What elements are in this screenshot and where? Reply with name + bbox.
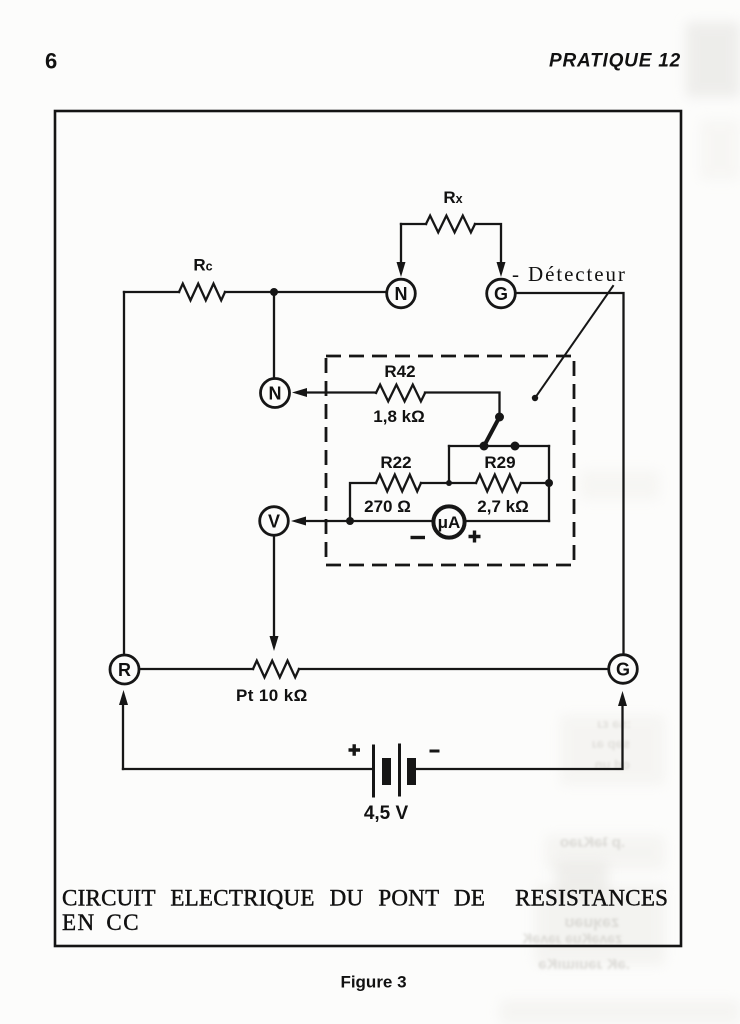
svg-text:V: V (268, 512, 280, 532)
svg-text:2,7 kΩ: 2,7 kΩ (477, 497, 528, 516)
svg-text:PRATIQUE 12: PRATIQUE 12 (549, 51, 681, 72)
svg-text::sə ɛɹ: :sə ɛɹ (597, 716, 631, 731)
svg-text:R: R (118, 660, 131, 680)
svg-text:N: N (395, 284, 408, 304)
svg-text:zəʞuəʊ: zəʞuəʊ (565, 914, 619, 931)
svg-text:Pt 10 kΩ: Pt 10 kΩ (236, 686, 308, 705)
svg-text:zəʌəƘuə ɹəʌəƘ: zəʌəƘuə ɹəʌəƘ (522, 930, 622, 946)
svg-text:.p ʇəƘɹəo: .p ʇəƘɹəo (560, 834, 625, 851)
svg-text:- Détecteur: - Détecteur (512, 262, 627, 286)
svg-text:R42: R42 (384, 362, 415, 381)
svg-text:6: 6 (45, 49, 57, 74)
svg-text:N: N (269, 384, 282, 404)
svg-text:R22: R22 (380, 453, 411, 472)
svg-text:270 Ω: 270 Ω (364, 497, 411, 516)
svg-text:1,8 kΩ: 1,8 kΩ (373, 407, 424, 426)
svg-text:səp əɹ: səp əɹ (592, 736, 630, 751)
svg-text:R29: R29 (484, 453, 515, 472)
svg-text:.əƘ ɹəuıɯıƘə: .əƘ ɹəuıɯıƘə (538, 956, 630, 973)
svg-text:CIRCUIT ELECTRIQUE DU PONT DE: CIRCUIT ELECTRIQUE DU PONT DE RESISTANCE… (62, 886, 668, 911)
svg-text:Figure 3: Figure 3 (340, 973, 406, 992)
svg-text:μA: μA (438, 513, 461, 532)
svg-text:G: G (616, 660, 630, 680)
svg-text:EN CC: EN CC (62, 910, 140, 935)
svg-text:4,5 V: 4,5 V (364, 803, 409, 824)
svg-text:G: G (494, 284, 508, 304)
